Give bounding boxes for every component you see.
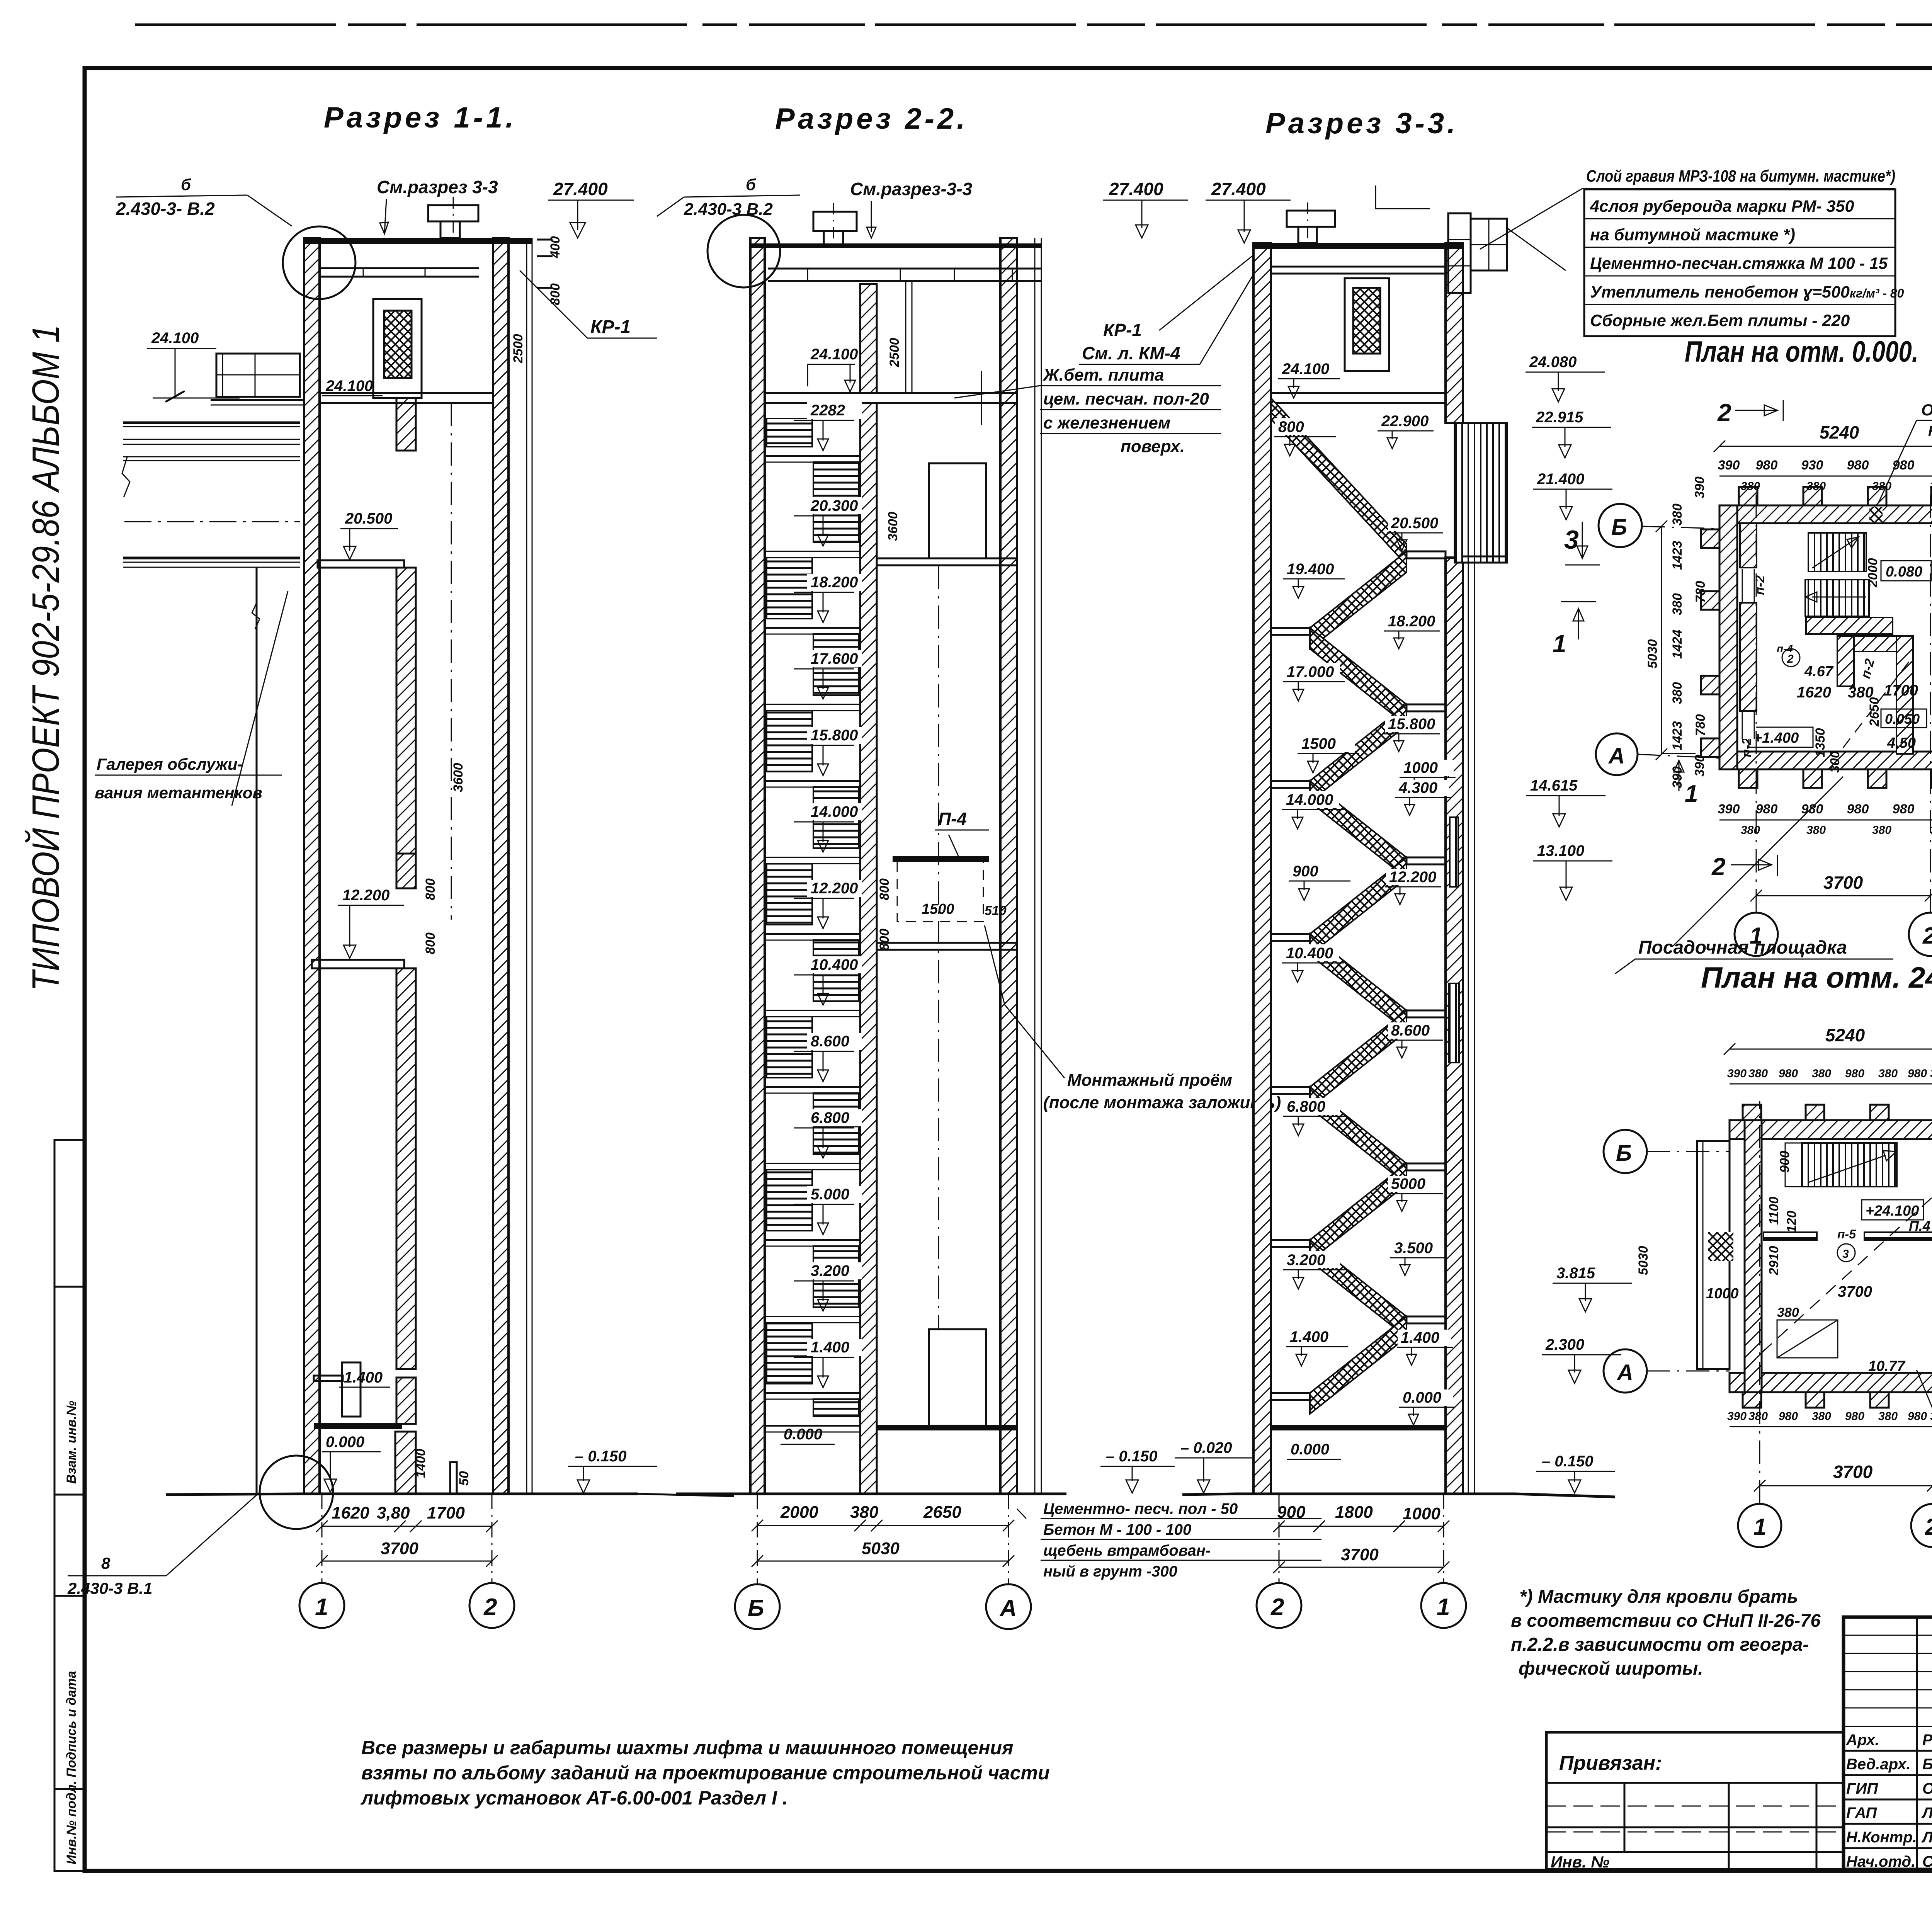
svg-text:Сорокин: Сорокин [1922,1853,1932,1870]
svg-text:А: А [1608,743,1625,769]
svg-text:1400: 1400 [413,1449,428,1478]
svg-text:12.200: 12.200 [342,887,389,904]
svg-text:2500: 2500 [887,338,902,367]
svg-text:27.400: 27.400 [1109,179,1163,199]
svg-text:8.600: 8.600 [1391,1022,1430,1039]
svg-text:12.200: 12.200 [811,880,858,897]
svg-text:1.400: 1.400 [811,1339,849,1356]
svg-text:щебень втрамбован-: щебень втрамбован- [1043,1542,1211,1559]
wall left hatched [304,238,320,1494]
svg-text:380: 380 [1777,1305,1799,1320]
svg-text:2000: 2000 [1866,558,1880,588]
buffer post [450,1462,457,1494]
svg-text:Низ. на отм.+0.400: Низ. на отм.+0.400 [1928,423,1932,439]
svg-text:Разрез 3-3.: Разрез 3-3. [1265,107,1458,140]
svg-text:380: 380 [1670,593,1685,615]
wall left hatched [1253,243,1271,1494]
svg-text:1700: 1700 [1884,682,1918,699]
svg-text:П.4: П.4 [1909,1218,1930,1234]
svg-text:27.400: 27.400 [1211,179,1266,199]
svg-text:2: 2 [483,1594,497,1621]
svg-text:390: 390 [1718,458,1740,473]
svg-text:380: 380 [1878,1410,1898,1423]
svg-text:20.500: 20.500 [1391,515,1438,532]
svg-text:Разрез 2-2.: Разрез 2-2. [775,102,968,135]
svg-text:18.200: 18.200 [811,574,858,591]
outer right thin face [1034,238,1036,1494]
svg-text:12.200: 12.200 [1389,869,1436,886]
svg-text:п-2: п-2 [1740,738,1754,757]
gallery left upper [123,422,300,424]
svg-text:17.600: 17.600 [811,650,858,667]
svg-text:5000: 5000 [1391,1175,1425,1192]
svg-text:390: 390 [1692,755,1707,777]
svg-text:0.000: 0.000 [1291,1441,1329,1458]
footnote [1511,1587,1821,1679]
axes [1756,487,1757,912]
svg-text:20.300: 20.300 [810,497,858,514]
svg-text:1620: 1620 [332,1503,369,1522]
top dashed trim line [135,24,1932,26]
svg-text:Посадочная площадка: Посадочная площадка [1638,937,1847,958]
svg-text:8: 8 [101,1554,111,1572]
landing wall [1806,617,1893,634]
top-left detail circle [707,215,780,287]
door gaps [1741,569,1756,602]
svg-text:План на отм. 0.000.: План на отм. 0.000. [1685,335,1918,368]
svg-text:Н.Контр.: Н.Контр. [1846,1829,1917,1846]
svg-text:800: 800 [877,878,892,900]
svg-text:Галерея обслужи-: Галерея обслужи- [97,755,243,773]
svg-text:Б: Б [748,1595,764,1621]
svg-text:2: 2 [1711,853,1726,881]
svg-text:См.разрез-3-3: См.разрез-3-3 [850,179,973,199]
P-4 platform [893,856,989,862]
svg-text:Лазарев: Лазарев [1921,1829,1932,1846]
svg-text:П-4: П-4 [938,809,967,829]
svg-text:380: 380 [1812,1067,1831,1080]
svg-text:Вед.арх.: Вед.арх. [1846,1756,1911,1773]
svg-text:800: 800 [423,878,438,900]
svg-text:780: 780 [1693,714,1708,736]
svg-text:390: 390 [1670,766,1685,788]
svg-text:Обух: Обух [1922,1780,1932,1797]
1 section marks [1662,753,1696,791]
svg-text:14.000: 14.000 [1286,791,1333,808]
shaft walls [1837,636,1913,651]
svg-text:Слой гравия МРЗ-108 на битумн.: Слой гравия МРЗ-108 на битумн. мастике*) [1586,167,1895,185]
svg-text:Сборные жел.Бет плиты - 220: Сборные жел.Бет плиты - 220 [1590,311,1850,330]
svg-text:380: 380 [1748,1067,1768,1080]
svg-text:Лапин: Лапин [1921,1804,1932,1821]
boxed label [1862,1200,1923,1220]
svg-text:380: 380 [1748,1410,1768,1423]
svg-text:лифтовых установок АТ-6.00-: лифтовых установок АТ-6.00-001 Раздел I … [361,1787,788,1809]
svg-text:в соответствии со СНиП II-26-7: в соответствии со СНиП II-26-76 [1511,1610,1821,1631]
svg-text:3700: 3700 [1823,872,1863,893]
vent window crosshatched [373,299,422,398]
svg-text:Взам. инв.№: Взам. инв.№ [64,1401,79,1484]
1.400 slab [314,1376,343,1381]
svg-text:ный в грунт -300: ный в грунт -300 [1043,1563,1177,1580]
svg-text:4.50: 4.50 [1887,735,1916,751]
svg-text:1424: 1424 [1670,629,1685,659]
gallery grid box [216,354,300,397]
svg-text:980: 980 [1779,1410,1798,1423]
svg-text:980: 980 [1908,1410,1927,1423]
svg-text:3700: 3700 [1833,1462,1873,1482]
roof vent [813,212,857,231]
roof vent [1287,211,1335,227]
svg-text:1.400: 1.400 [1290,1328,1328,1345]
svg-text:п-4: п-4 [1777,643,1793,655]
boxed labels [1881,561,1931,581]
svg-text:2500: 2500 [511,334,526,364]
svg-text:4.67: 4.67 [1804,663,1834,680]
svg-text:3,80: 3,80 [377,1503,410,1522]
svg-text:поверх.: поверх. [1121,437,1185,456]
svg-text:390: 390 [1692,476,1707,498]
svg-text:цем. песчан. пол-20: цем. песчан. пол-20 [1043,389,1209,408]
svg-text:(после монтажа заложить): (после монтажа заложить) [1043,1093,1281,1112]
svg-text:*) Мастику для кровли брать: *) Мастику для кровли брать [1519,1587,1798,1607]
svg-text:15.800: 15.800 [1388,716,1435,733]
svg-text:3.200: 3.200 [811,1262,849,1279]
machine room beams [905,282,906,393]
svg-text:380: 380 [850,1503,879,1522]
svg-text:980: 980 [1893,802,1915,816]
svg-text:1.400: 1.400 [1401,1329,1439,1346]
svg-text:380: 380 [1806,824,1826,837]
svg-text:на битумной мастике *): на битумной мастике *) [1590,226,1795,244]
svg-text:Инв. №: Инв. № [1551,1853,1609,1871]
svg-text:1000: 1000 [1706,1286,1739,1302]
svg-text:380: 380 [1872,824,1891,837]
stair flights [767,418,812,447]
elevator car top [929,463,986,558]
svg-text:1500: 1500 [922,901,954,917]
svg-text:3.500: 3.500 [1394,1240,1433,1257]
wall middle hatched segments [396,398,416,451]
axes [1759,1101,1760,1503]
svg-text:380: 380 [1812,1410,1831,1423]
svg-text:1620: 1620 [1797,684,1831,701]
svg-text:с железнением: с железнением [1043,413,1170,432]
svg-text:390: 390 [1718,802,1740,816]
svg-text:980: 980 [1847,802,1869,816]
svg-text:800: 800 [1278,418,1304,435]
svg-text:– 0.150: – 0.150 [1106,1448,1157,1465]
svg-text:380: 380 [1872,480,1891,493]
svg-text:8.600: 8.600 [811,1033,849,1050]
svg-text:3700: 3700 [1341,1545,1379,1564]
svg-text:380: 380 [1670,682,1685,704]
svg-text:1700: 1700 [427,1503,465,1522]
svg-text:1423: 1423 [1670,721,1685,750]
svg-text:2: 2 [1922,923,1932,949]
svg-text:24.100: 24.100 [810,346,858,363]
svg-text:А: А [999,1595,1017,1621]
roof slab [304,238,532,244]
svg-text:5030: 5030 [862,1539,900,1558]
svg-text:Подпись и дата: Подпись и дата [64,1671,79,1777]
svg-text:15.800: 15.800 [811,727,858,744]
wall right hatched [1000,238,1017,1494]
svg-text:См.разрез 3-3: См.разрез 3-3 [377,177,498,197]
left level labels [1279,360,1335,377]
svg-text:1350: 1350 [1813,728,1828,757]
svg-text:0.050: 0.050 [1885,711,1920,727]
svg-text:24.100: 24.100 [325,378,373,395]
car bottom [929,1329,986,1426]
svg-text:13.100: 13.100 [1537,842,1584,859]
stair level labels [807,402,862,419]
svg-text:22.915: 22.915 [1536,409,1583,426]
svg-text:3600: 3600 [886,512,900,541]
gallery door right gap covered by stripes [1455,423,1507,563]
svg-text:5240: 5240 [1820,422,1859,442]
svg-text:1000: 1000 [1403,1504,1440,1523]
svg-text:27.400: 27.400 [553,179,608,199]
svg-text:5030: 5030 [1645,639,1660,668]
wall right hatched lower [1446,558,1463,1494]
svg-text:1: 1 [1685,781,1698,807]
gallery left lower [124,521,300,522]
svg-text:18.200: 18.200 [1388,613,1435,630]
svg-text:ГАП: ГАП [1846,1804,1877,1821]
dashed shaft diagonal [1843,657,1913,748]
svg-text:980: 980 [1845,1410,1864,1423]
svg-text:980: 980 [1756,458,1778,473]
svg-text:21.400: 21.400 [1537,471,1584,488]
svg-text:380: 380 [1806,480,1826,493]
svg-text:4слоя рубероида марки РМ- 350: 4слоя рубероида марки РМ- 350 [1590,197,1854,216]
axis circles [299,1583,344,1628]
svg-text:14.615: 14.615 [1530,777,1578,794]
svg-text:2910: 2910 [1767,1246,1781,1276]
svg-text:См. л. КМ-4: См. л. КМ-4 [1082,343,1180,363]
svg-text:3.200: 3.200 [1287,1252,1325,1269]
svg-text:17.000: 17.000 [1287,663,1334,680]
svg-text:6.800: 6.800 [811,1109,849,1126]
svg-text:1: 1 [1437,1594,1450,1621]
svg-text:Будагянц: Будагянц [1922,1756,1932,1773]
svg-text:План на отм. 24.100: План на отм. 24.100 [1701,961,1932,994]
svg-text:0.000: 0.000 [784,1426,822,1443]
svg-text:120: 120 [1784,1211,1799,1233]
svg-text:10.400: 10.400 [811,956,858,973]
24.100 floor slab [765,393,1017,403]
svg-text:1: 1 [315,1594,328,1621]
hatch opening box [1777,1320,1838,1358]
svg-text:380: 380 [1930,1410,1932,1423]
roof slab [750,243,1041,248]
svg-text:3700: 3700 [381,1539,418,1558]
svg-text:– 0.020: – 0.020 [1180,1439,1232,1456]
svg-text:390: 390 [1727,1067,1747,1080]
svg-text:14.000: 14.000 [811,803,858,820]
svg-text:980: 980 [1893,458,1915,473]
svg-text:КР-1: КР-1 [590,317,631,337]
svg-text:24.100: 24.100 [151,330,199,347]
svg-text:КР-1: КР-1 [1103,320,1142,340]
svg-text:900: 900 [1777,1151,1792,1173]
svg-text:Инв.№ подл.: Инв.№ подл. [64,1781,79,1864]
svg-text:2: 2 [1925,1514,1932,1540]
dashed diagonal [1762,1194,1932,1352]
svg-text:300: 300 [1828,751,1842,773]
svg-text:Отв.200× 200: Отв.200× 200 [1921,401,1932,419]
roof vent equipment [428,205,478,221]
svg-text:20.500: 20.500 [345,510,392,527]
svg-text:Ж.бет. плита: Ж.бет. плита [1043,366,1164,384]
20.500 landing slab [318,560,404,568]
ground [1182,1494,1615,1497]
svg-text:980: 980 [1847,458,1869,473]
wall right hatched [493,238,509,1494]
svg-text:800: 800 [423,932,438,954]
svg-text:3700: 3700 [1838,1283,1872,1300]
svg-text:2650: 2650 [923,1503,961,1522]
svg-text:– 0.150: – 0.150 [1542,1453,1593,1470]
svg-text:780: 780 [1693,581,1708,603]
24.100 floor slab [1271,393,1446,403]
right level labels [1378,413,1432,429]
svg-text:ГИП: ГИП [1846,1780,1878,1797]
20.5 slab [877,558,1017,565]
svg-text:2000: 2000 [780,1503,818,1522]
svg-text:Арх.: Арх. [1846,1731,1879,1748]
svg-text:2.430-3- В.2: 2.430-3- В.2 [116,199,215,219]
svg-text:1: 1 [1553,630,1566,658]
svg-text:380: 380 [1741,824,1760,837]
bottom note [361,1737,1050,1809]
svg-text:2.300: 2.300 [1545,1336,1584,1353]
wall middle hatched [860,284,877,393]
0.000 slab [314,1423,402,1429]
svg-text:380: 380 [1930,480,1932,493]
stair flights [1808,533,1866,571]
svg-text:2.430-3 В.2: 2.430-3 В.2 [684,200,773,219]
svg-text:взяты по альбому заданий на: взяты по альбому заданий на проектирован… [361,1762,1050,1784]
12.200 landing slab [312,960,404,968]
svg-text:380: 380 [1741,480,1760,493]
svg-text:Рудакова: Рудакова [1922,1731,1932,1748]
svg-text:800: 800 [877,929,892,951]
svg-text:2282: 2282 [810,402,845,419]
svg-text:2: 2 [1717,399,1731,427]
svg-text:п.2.2.в зависимости от геогра-: п.2.2.в зависимости от геогра- [1511,1634,1809,1655]
outer right thin face [526,238,527,1494]
svg-text:19.400: 19.400 [1287,561,1334,578]
svg-text:Монтажный проём: Монтажный проём [1067,1071,1232,1090]
svg-text:980: 980 [1779,1067,1798,1080]
roof slab [1253,243,1463,249]
window crosshatch upper [1345,278,1389,371]
svg-text:Цементно- песч. пол - 50: Цементно- песч. пол - 50 [1043,1500,1238,1517]
svg-text:930: 930 [1801,458,1823,473]
section mark 1 [1561,602,1596,639]
svg-text:900: 900 [1293,863,1318,880]
svg-text:б: б [746,175,756,194]
svg-text:1800: 1800 [1335,1503,1373,1522]
ground line [166,1494,638,1495]
svg-text:980: 980 [1908,1067,1927,1080]
svg-text:510: 510 [985,903,1007,918]
svg-text:1000: 1000 [1403,759,1438,776]
svg-text:Бетон М - 100 - 100: Бетон М - 100 - 100 [1043,1521,1191,1538]
svg-text:1100: 1100 [1767,1197,1781,1225]
svg-text:800: 800 [548,283,563,305]
svg-text:24.080: 24.080 [1529,354,1577,371]
svg-text:Цементно-песчан.стяжка М 100: Цементно-песчан.стяжка М 100 - 15 [1590,254,1888,273]
svg-text:900: 900 [1277,1503,1306,1522]
svg-text:380: 380 [1670,503,1685,526]
svg-text:фической широты.: фической широты. [1519,1658,1703,1679]
svg-text:ТИПОВОЙ ПРОЕКТ 902-5-29.86 АЛЬ: ТИПОВОЙ ПРОЕКТ 902-5-29.86 АЛЬБОМ 1 [24,325,67,991]
svg-text:980: 980 [1845,1067,1864,1080]
svg-text:А: А [1616,1360,1633,1385]
montage hatch cross patch [1708,1232,1733,1261]
svg-text:380: 380 [1930,1067,1932,1080]
svg-text:3: 3 [1842,1248,1849,1260]
12.2 slab [877,943,1017,950]
svg-text:– 0.150: – 0.150 [575,1448,626,1465]
svg-text:3600: 3600 [451,763,466,792]
svg-text:п-5: п-5 [1837,1227,1856,1241]
svg-text:+1.400: +1.400 [1753,730,1799,746]
svg-text:0.000: 0.000 [1403,1389,1441,1406]
svg-text:0.080: 0.080 [1886,564,1922,580]
svg-text:2.430-3 В.1: 2.430-3 В.1 [67,1579,152,1597]
svg-text:5240: 5240 [1825,1025,1865,1045]
rooftop right structure KR-1 [1448,213,1471,293]
detail circles [283,226,355,299]
wall right hatched upper [1446,243,1463,423]
svg-text:6.800: 6.800 [1287,1098,1325,1115]
24.100 floor slab [320,393,493,403]
ground [676,1493,1066,1495]
left margin strip [54,1140,85,1871]
svg-text:5030: 5030 [1636,1246,1651,1275]
interior stair wall [1740,523,1757,568]
svg-text:Привязан:: Привязан: [1559,1752,1662,1774]
svg-text:Б: Б [1611,515,1627,540]
svg-text:1500: 1500 [1301,735,1336,752]
svg-text:3: 3 [1564,525,1579,554]
metantank wall vertical [256,567,258,1494]
svg-text:24.100: 24.100 [1282,361,1329,378]
svg-text:Нач.отд.: Нач.отд. [1846,1853,1915,1870]
svg-text:50: 50 [457,1471,471,1486]
svg-text:1.400: 1.400 [344,1369,383,1386]
svg-text:б: б [181,175,191,194]
svg-text:980: 980 [1756,802,1778,816]
narrow shaft door rect [342,1362,361,1417]
svg-text:4.300: 4.300 [1398,779,1437,796]
svg-text:1423: 1423 [1670,541,1685,570]
svg-text:10.400: 10.400 [1286,945,1333,962]
svg-text:1: 1 [1753,1514,1766,1540]
svg-text:390: 390 [1727,1410,1747,1423]
zigzag stairs [1271,398,1406,565]
svg-text:5.000: 5.000 [811,1186,849,1203]
svg-text:10.77: 10.77 [1868,1358,1906,1374]
wall left hatched [750,238,765,1494]
svg-text:3.815: 3.815 [1556,1265,1595,1282]
svg-text:Разрез 1-1.: Разрез 1-1. [324,101,517,134]
svg-text:Все размеры и габариты шахт: Все размеры и габариты шахты лифта и маш… [361,1737,1014,1759]
